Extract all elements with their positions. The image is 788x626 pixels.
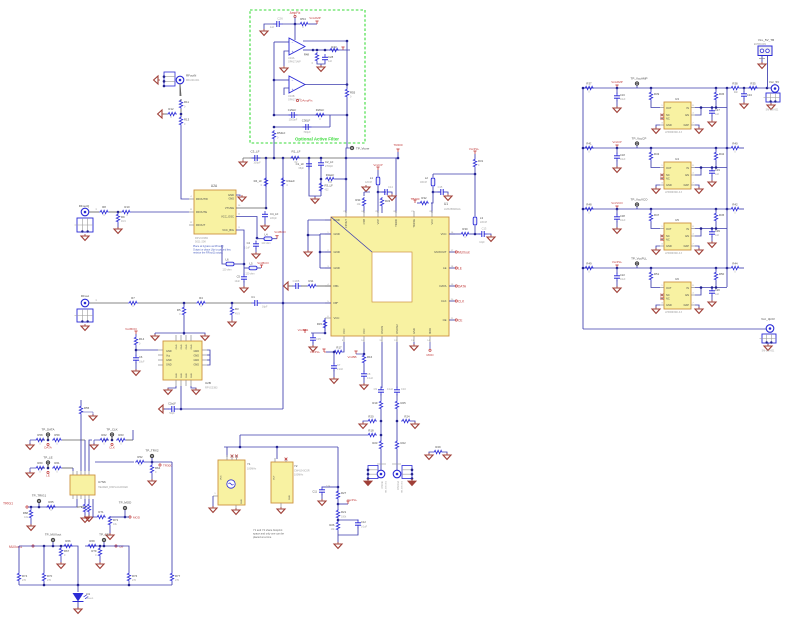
node CLK [109, 443, 115, 449]
svg-text:GND: GND [334, 218, 340, 222]
wire [319, 234, 321, 268]
svg-text:RFoutN: RFoutN [186, 74, 196, 78]
svg-text:MOD: MOD [427, 353, 435, 357]
wire [136, 349, 158, 351]
wire [656, 125, 660, 128]
junction [135, 349, 138, 352]
wire [320, 167, 322, 196]
wire [85, 545, 114, 547]
svg-text:R18: R18 [368, 429, 374, 433]
svg-text:1uF: 1uF [715, 234, 720, 237]
wire [303, 40, 347, 42]
wire [377, 192, 379, 213]
crystal Y2 [271, 462, 310, 503]
svg-text:C26: C26 [277, 17, 283, 21]
svg-text:1uF: 1uF [715, 113, 720, 116]
svg-text:10uF: 10uF [620, 98, 626, 101]
wire [381, 342, 383, 388]
svg-text:OUT: OUT [666, 106, 672, 110]
junction [180, 408, 183, 411]
resistor R32 [419, 196, 429, 205]
junction [60, 545, 63, 548]
power VccCP [373, 163, 382, 170]
wire [345, 158, 347, 213]
svg-text:220nH: 220nH [480, 221, 487, 224]
svg-text:R42: R42 [719, 152, 725, 156]
wire [191, 386, 196, 389]
ground [280, 66, 288, 72]
pin1 label [95, 299, 97, 302]
pin stub [660, 183, 664, 186]
resistor R79 [91, 547, 101, 557]
svg-text:OUT: OUT [666, 166, 672, 170]
wire [39, 439, 45, 441]
svg-text:TP_TRX2: TP_TRX2 [145, 449, 159, 453]
junction [99, 545, 102, 548]
pin stub [660, 226, 664, 229]
wire [321, 494, 323, 500]
svg-text:FB1: FB1 [334, 284, 340, 288]
junction [715, 208, 718, 211]
pin stub [158, 359, 207, 361]
pin stub [691, 293, 695, 296]
resistor R14 [134, 336, 144, 346]
wire [236, 207, 266, 209]
svg-text:VCC_BIG: VCC_BIG [222, 228, 234, 232]
node MOD2 [129, 516, 141, 520]
capacitor C17 [709, 108, 720, 117]
svg-text:TP_TRIG1: TP_TRIG1 [32, 494, 47, 498]
resistor R43 [329, 45, 339, 52]
pin CPOUT [344, 219, 348, 228]
svg-text:C35: C35 [316, 337, 321, 341]
svg-text:space and only one can be: space and only one can be [253, 532, 285, 536]
pin stub [691, 113, 695, 116]
wire [324, 318, 326, 331]
resistor R10 [121, 205, 131, 217]
svg-text:LP38693SD-3.3: LP38693SD-3.3 [665, 131, 683, 134]
svg-text:OSCin: OSCin [380, 480, 384, 488]
inductor L2 [420, 176, 435, 186]
ground [311, 197, 319, 203]
ground [85, 515, 93, 521]
wire [636, 146, 638, 148]
svg-text:270: 270 [175, 579, 180, 582]
junction [243, 263, 246, 266]
wire [154, 333, 156, 335]
ground [26, 440, 35, 449]
svg-text:CW419-0C0R: CW419-0C0R [294, 470, 310, 473]
wire [109, 211, 121, 213]
svg-text:NC: NC [666, 113, 670, 117]
ground [708, 300, 716, 306]
svg-text:1uF: 1uF [328, 60, 333, 63]
wire [84, 499, 86, 503]
wire [715, 101, 717, 108]
svg-text:VccAMP: VccAMP [309, 16, 321, 20]
junction [346, 83, 349, 86]
ground [261, 224, 269, 230]
ground [444, 194, 452, 200]
resistor R68 [23, 509, 33, 519]
svg-text:VccCP: VccCP [612, 140, 621, 144]
wire [77, 585, 79, 592]
wire [432, 187, 434, 192]
resistor R59 [52, 433, 62, 446]
wire [99, 546, 101, 548]
wire [258, 267, 262, 269]
wire [19, 584, 172, 586]
svg-text:LP38693SD-3.3: LP38693SD-3.3 [665, 191, 683, 194]
svg-text:R11: R11 [309, 279, 314, 283]
resistor R4 [196, 296, 206, 308]
regulator U5 [664, 218, 691, 255]
capacitor C9 [374, 387, 394, 396]
pin stub [660, 105, 664, 108]
ground [158, 110, 164, 118]
wire [183, 333, 185, 335]
svg-text:700pF: 700pF [303, 130, 311, 134]
wire [284, 88, 289, 95]
wire [311, 329, 325, 333]
resistor R1_LF [290, 150, 301, 165]
wire [62, 439, 85, 441]
svg-text:100k: 100k [341, 516, 347, 519]
svg-text:Y1 and Y2 share footprint: Y1 and Y2 share footprint [253, 528, 283, 532]
svg-text:VCC_OSC: VCC_OSC [221, 215, 234, 219]
svg-text:Green: Green [87, 597, 94, 600]
wire [151, 458, 153, 462]
wire [89, 440, 92, 452]
ground [209, 506, 217, 512]
wire [651, 222, 660, 229]
junction [616, 147, 619, 150]
pin stub [342, 336, 344, 342]
wire [273, 42, 275, 115]
svg-text:LE: LE [46, 474, 50, 478]
capacitor C2 [168, 402, 177, 416]
regulator U6 [664, 277, 691, 314]
svg-text:U1: U1 [444, 202, 448, 206]
label OSCin2 [396, 480, 404, 493]
wire [43, 546, 45, 572]
pin stub [80, 471, 82, 499]
svg-text:GND: GND [412, 328, 416, 334]
svg-text:OPA171AIP: OPA171AIP [288, 61, 301, 64]
junction [333, 351, 336, 354]
pin stub [325, 232, 331, 234]
wire [30, 507, 32, 509]
wire [62, 467, 73, 469]
wire [411, 421, 415, 423]
pin stub [238, 214, 241, 216]
ground [758, 62, 766, 68]
wire [320, 251, 331, 253]
wire [616, 88, 618, 94]
wire [77, 602, 79, 609]
connector J2 OSCin2 [392, 464, 413, 480]
wire [449, 233, 460, 235]
wire [711, 236, 713, 242]
wire [309, 23, 317, 25]
svg-text:R37: R37 [586, 82, 592, 86]
pin stub [158, 354, 207, 356]
wire [727, 267, 730, 269]
resistor R40x [730, 142, 740, 154]
svg-text:R4_LF: R4_LF [254, 179, 263, 183]
filter label [295, 137, 339, 142]
wire [367, 479, 369, 482]
pin GND [334, 218, 340, 222]
svg-text:CSB: CSB [362, 219, 366, 225]
wire [743, 98, 745, 103]
capacitor C15 [438, 185, 447, 195]
wire [695, 305, 699, 308]
junction [273, 114, 276, 117]
wire [124, 510, 126, 517]
wire [135, 334, 137, 336]
ground [90, 440, 99, 449]
wire [255, 248, 257, 253]
svg-text:placed at a time: placed at a time [253, 535, 272, 539]
svg-text:VTUNE: VTUNE [225, 206, 234, 210]
pin CSB [362, 219, 366, 225]
wire [320, 158, 322, 161]
pin TRXSE [412, 219, 416, 228]
note [193, 245, 232, 255]
svg-text:U10B: U10B [288, 94, 295, 98]
ground [334, 542, 342, 548]
ground [613, 286, 621, 292]
tp stem [47, 465, 49, 468]
svg-text:R36: R36 [719, 92, 725, 96]
wire [126, 439, 133, 441]
wire [636, 207, 638, 209]
svg-text:C11: C11 [312, 490, 317, 494]
capacitor C29 [288, 108, 298, 122]
svg-text:0.1uF: 0.1uF [367, 377, 374, 380]
connector Vcc_5V [769, 80, 779, 92]
pin stub [325, 250, 331, 252]
svg-text:MD-000-001: MD-000-001 [186, 79, 200, 82]
wire [740, 208, 744, 210]
wire [124, 546, 129, 572]
svg-text:C4: C4 [247, 241, 251, 245]
wire [264, 24, 274, 30]
svg-text:TR200: TR200 [393, 143, 402, 147]
svg-text:NC: NC [666, 177, 670, 181]
wire [363, 192, 365, 196]
resistor R69 [87, 539, 97, 548]
junction [324, 332, 327, 335]
capacitor C10 [394, 387, 406, 396]
svg-text:VCP: VCP [376, 219, 380, 225]
svg-text:C12: C12 [361, 520, 366, 524]
op-amp U10B [288, 76, 305, 102]
wire [47, 437, 49, 440]
wire [429, 452, 433, 454]
IC U2A [194, 184, 236, 234]
wire [715, 222, 717, 229]
junction [337, 519, 340, 522]
junction [726, 267, 729, 270]
svg-text:VccBB: VccBB [347, 355, 356, 359]
svg-text:R30: R30 [462, 227, 468, 231]
ground [81, 324, 89, 330]
wire [249, 157, 347, 159]
wire [767, 343, 769, 345]
svg-text:R29: R29 [435, 445, 441, 449]
wire [206, 302, 252, 304]
pin GND [334, 250, 340, 254]
wire [226, 447, 228, 457]
junction [183, 302, 186, 305]
svg-text:GND: GND [289, 495, 291, 500]
wire [89, 302, 128, 304]
wire [163, 113, 167, 115]
junction [380, 434, 383, 437]
svg-text:56pF: 56pF [169, 412, 175, 415]
svg-text:GND: GND [666, 123, 672, 127]
svg-text:C13: C13 [482, 227, 487, 231]
capacitor C22 [614, 273, 626, 282]
wire [135, 362, 137, 370]
test point TP_TRX2 [145, 449, 159, 458]
junction [47, 467, 50, 470]
resistor R20 [367, 415, 377, 423]
wire [337, 519, 339, 522]
wire [695, 246, 699, 249]
ground [81, 412, 97, 420]
wire [656, 246, 660, 249]
svg-text:R15: R15 [317, 322, 323, 326]
resistor R25 [395, 400, 406, 410]
resistor R76 [127, 572, 137, 582]
node TR300 [159, 464, 172, 468]
ground [57, 562, 65, 568]
junction [319, 251, 322, 254]
wire [396, 410, 398, 441]
svg-text:VccBB1: VccBB1 [298, 328, 309, 332]
pin stub [449, 284, 455, 286]
svg-text:TP_CLK: TP_CLK [106, 428, 117, 432]
svg-text:TP_VccCP: TP_VccCP [632, 137, 647, 141]
capacitor C6b [310, 335, 321, 344]
wire [294, 18, 296, 25]
resistor R52 [135, 455, 145, 467]
connector RFout [75, 294, 94, 323]
resistor R49 [584, 262, 594, 274]
wire [180, 84, 181, 96]
reg pin names [666, 106, 689, 127]
power VccPLL2 [310, 349, 326, 354]
ground [652, 127, 660, 133]
svg-text:HEADER_DISPLACARCED: HEADER_DISPLACARCED [98, 486, 128, 489]
crystal Y1 [218, 460, 257, 505]
pin stub [449, 232, 455, 234]
pin LE [443, 266, 447, 270]
svg-text:DATA: DATA [44, 446, 52, 450]
ground [132, 369, 140, 375]
wire [80, 415, 82, 471]
pin MOD [428, 328, 432, 334]
pin stub [325, 284, 331, 286]
wire [207, 354, 210, 356]
junction [616, 267, 619, 270]
svg-text:U4: U4 [675, 157, 679, 161]
svg-text:49.9: 49.9 [235, 313, 240, 316]
junction [582, 208, 585, 211]
wire [695, 287, 727, 289]
pin stub [449, 299, 455, 301]
wire [313, 49, 328, 51]
svg-text:R59: R59 [54, 433, 60, 437]
ground [652, 248, 660, 254]
svg-text:NC: NC [666, 297, 670, 301]
resistor R73 [81, 503, 91, 513]
svg-text:120 ohm: 120 ohm [245, 273, 254, 276]
wire [711, 295, 713, 301]
junction [743, 87, 746, 90]
wire [243, 281, 245, 287]
IC U2B [163, 341, 218, 390]
svg-text:TP_VccPLL: TP_VccPLL [631, 257, 647, 261]
svg-text:R14: R14 [139, 337, 145, 341]
tp stem [47, 437, 49, 440]
wire [432, 174, 434, 177]
wire [396, 450, 398, 470]
wire [183, 316, 185, 333]
svg-text:L4: L4 [264, 233, 268, 237]
test point TP_VccCP [632, 137, 647, 146]
reg pin names [666, 286, 689, 307]
ground [27, 524, 35, 530]
wire [224, 446, 338, 448]
test point TP_VccAMP [630, 77, 647, 86]
wire [337, 500, 339, 510]
resistor R55 [79, 405, 89, 415]
capacitor C12 [355, 520, 368, 529]
pin stub [190, 335, 192, 386]
svg-text:C38: C38 [620, 214, 625, 218]
wire [294, 24, 296, 40]
wire [380, 450, 382, 470]
wire [377, 186, 379, 192]
node MUXout2 [9, 545, 34, 549]
svg-text:2.2uF: 2.2uF [337, 368, 344, 371]
wire [73, 546, 78, 585]
junction [711, 227, 714, 230]
svg-text:GND: GND [191, 344, 193, 349]
ground [362, 185, 370, 192]
svg-text:1uF: 1uF [715, 293, 720, 296]
ground [81, 234, 89, 240]
svg-text:100pF: 100pF [253, 161, 261, 165]
U2B pin names [166, 344, 199, 378]
ground [304, 250, 312, 256]
no-connect [660, 174, 664, 180]
op-amp U10A [288, 38, 305, 64]
pin stub [361, 211, 364, 217]
wire [616, 209, 618, 215]
svg-text:C1FB: C1FB [293, 279, 300, 283]
pin stub [691, 105, 695, 108]
svg-text:TRIG1: TRIG1 [3, 502, 13, 506]
wire [307, 235, 309, 251]
wire [767, 56, 769, 89]
svg-text:120 ohm: 120 ohm [261, 242, 270, 245]
wire [390, 192, 392, 194]
